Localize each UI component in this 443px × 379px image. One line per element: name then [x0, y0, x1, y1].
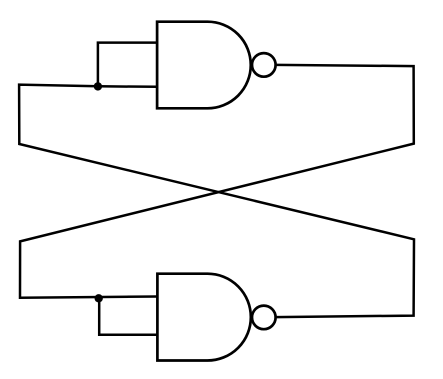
node: junction dot at U1 inputs [94, 82, 102, 90]
nand gate U1 (top) body [157, 22, 251, 109]
wire: U2 output to right rail up to U1 lower input [19, 85, 414, 318]
nand gate U2 (bottom) body [157, 274, 250, 361]
wire: U1 output to right rail down to U2 upper input [20, 65, 414, 298]
wire: U1 input branch up to top input [98, 43, 157, 87]
nand gate U2 output bubble [252, 306, 276, 330]
nand gate U1 output bubble [252, 53, 276, 77]
wire: U2 input branch down to lower input [99, 298, 157, 335]
node: junction dot at U2 inputs [95, 294, 103, 302]
